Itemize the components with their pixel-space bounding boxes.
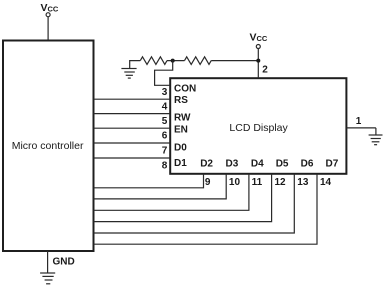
svg-text:D0: D0 [174,142,187,153]
wire pin11 D4 [94,174,249,211]
svg-text:8: 8 [162,160,168,171]
wire junction to CON pin 3 [155,61,173,86]
svg-text:CON: CON [174,84,196,95]
svg-text:13: 13 [297,177,309,188]
svg-text:RW: RW [174,112,191,123]
svg-text:D7: D7 [326,158,339,169]
wire pin12 D5 [94,174,272,222]
LCD display box U2 [170,78,346,174]
wire pin9 D2 [94,174,204,188]
svg-text:Micro controller: Micro controller [12,140,84,152]
svg-text:10: 10 [229,177,241,188]
wire pin10 D3 [94,174,227,199]
svg-text:D6: D6 [301,158,314,169]
svg-text:D2: D2 [200,158,213,169]
ground symbol (contrast divider) [121,61,140,79]
wire pin7 D0 [94,142,171,144]
svg-text:EN: EN [174,124,188,135]
svg-text:VCC: VCC [250,32,268,44]
Vcc supply symbol (top, LCD) [256,45,260,79]
svg-text:14: 14 [320,177,332,188]
ground symbol (micro controller GND) [40,251,55,284]
svg-text:D5: D5 [276,158,289,169]
resistor R1 [140,57,167,65]
svg-text:GND: GND [53,257,75,268]
svg-text:RS: RS [174,95,188,106]
svg-text:1: 1 [356,116,362,127]
svg-text:9: 9 [205,177,211,188]
wire pin1 VSS [346,127,376,129]
wire pin13 D6 [94,174,295,233]
micro controller box U1 [3,41,94,252]
svg-text:4: 4 [162,102,168,113]
wire pin4 RS [94,98,171,100]
svg-text:11: 11 [252,177,263,188]
svg-text:D3: D3 [226,158,239,169]
svg-text:5: 5 [162,116,168,127]
svg-text:D4: D4 [251,158,264,169]
svg-text:VCC: VCC [41,2,59,14]
svg-text:6: 6 [162,131,168,142]
svg-text:D1: D1 [174,158,187,169]
wire pin5 RW [94,113,171,115]
wire R2 to Vcc node [211,60,258,62]
resistor R2 [185,57,212,65]
svg-text:3: 3 [162,87,168,98]
wire R1 to junction [167,60,185,62]
wire pin8 D1 [94,157,171,159]
Vcc supply symbol (left) [46,13,50,40]
wire pin14 D7 [94,174,318,244]
junction node between resistors [171,59,175,63]
Vcc junction node [256,59,260,63]
wire pin6 EN [94,127,171,129]
svg-text:2: 2 [262,65,268,76]
svg-text:LCD Display: LCD Display [229,122,288,134]
svg-text:12: 12 [275,177,287,188]
svg-text:7: 7 [162,145,168,156]
ground symbol (LCD pin 1) [369,128,383,145]
